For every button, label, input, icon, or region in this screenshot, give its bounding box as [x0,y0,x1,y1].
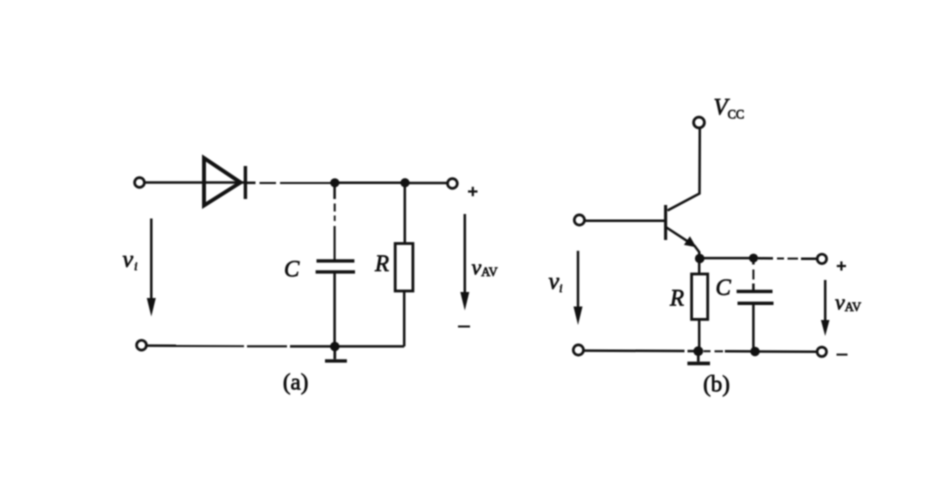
svg-text:vAV: vAV [472,255,498,280]
node G junction dot (capacitor bottom) [750,347,759,356]
wire diode to node A [247,182,331,185]
terminal input bottom (b) [573,345,583,355]
wire node B down to resistor [404,185,407,244]
resistor R1 body [395,244,413,292]
svg-text:(b): (b) [703,372,730,397]
svg-text:vAV: vAV [835,290,861,315]
wire resistor down to bottom rail (b) [698,319,701,351]
arrow v_AV (b) [821,280,830,336]
arrow v_AV (a) [460,214,469,311]
terminal output top (a) [448,179,458,189]
capacitor C1 plates [316,261,355,272]
arrow v_i (a) [147,219,156,317]
node A junction dot [330,178,339,187]
wire emitter node to node F [700,257,754,260]
transistor Q1 emitter with arrow [667,228,700,259]
capacitor C2 plates [737,291,774,303]
diode D1 [204,158,245,206]
terminal input top (b) [574,215,584,225]
svg-text:C: C [716,275,732,300]
wire resistor down to bottom rail [403,291,406,346]
node F junction dot [749,254,758,263]
resistor R2 body [692,274,708,319]
svg-text:(a): (a) [283,370,309,395]
minus sign (a) [458,326,470,328]
transistor Q1 base bar [664,205,667,240]
terminal output top (b) [817,254,826,263]
wire node A down to capacitor [333,185,336,260]
svg-text:vi: vi [123,247,138,273]
wire node B to output terminal [405,182,448,185]
ground node junction dot (b) [693,346,703,356]
wire collector [668,128,700,210]
wire capacitor down to bottom rail [333,273,336,346]
plus sign (a) [468,187,478,196]
terminal output bottom (b) [817,347,826,356]
minus sign (b) [837,354,848,356]
svg-text:R: R [669,286,684,311]
wire input to diode [145,181,244,184]
ground node junction dot (a) [330,342,339,351]
bottom rail wire (b) [584,351,817,352]
bottom rail wire (a) [147,344,404,347]
wire node F to output terminal (b) [758,257,817,260]
terminal Vcc [694,117,705,128]
node E junction dot (emitter) [695,254,705,264]
wire base [585,219,665,222]
ground symbol (a) [325,351,347,361]
svg-text:VCC: VCC [714,95,745,122]
ground symbol (b) [687,355,710,363]
wire node F down to capacitor [752,261,755,292]
svg-text:vi: vi [549,269,563,295]
arrow v_i (b) [574,251,583,325]
terminal input bottom (a) [137,340,147,350]
wire node A to node B [335,181,405,184]
svg-text:R: R [374,251,389,276]
plus sign (b) [837,261,846,270]
node B junction dot [400,178,409,187]
wire capacitor down to bottom rail (b) [752,303,755,351]
wire emitter node down to resistor [698,260,701,274]
svg-text:C: C [284,257,300,282]
terminal input top (a) [135,178,145,188]
